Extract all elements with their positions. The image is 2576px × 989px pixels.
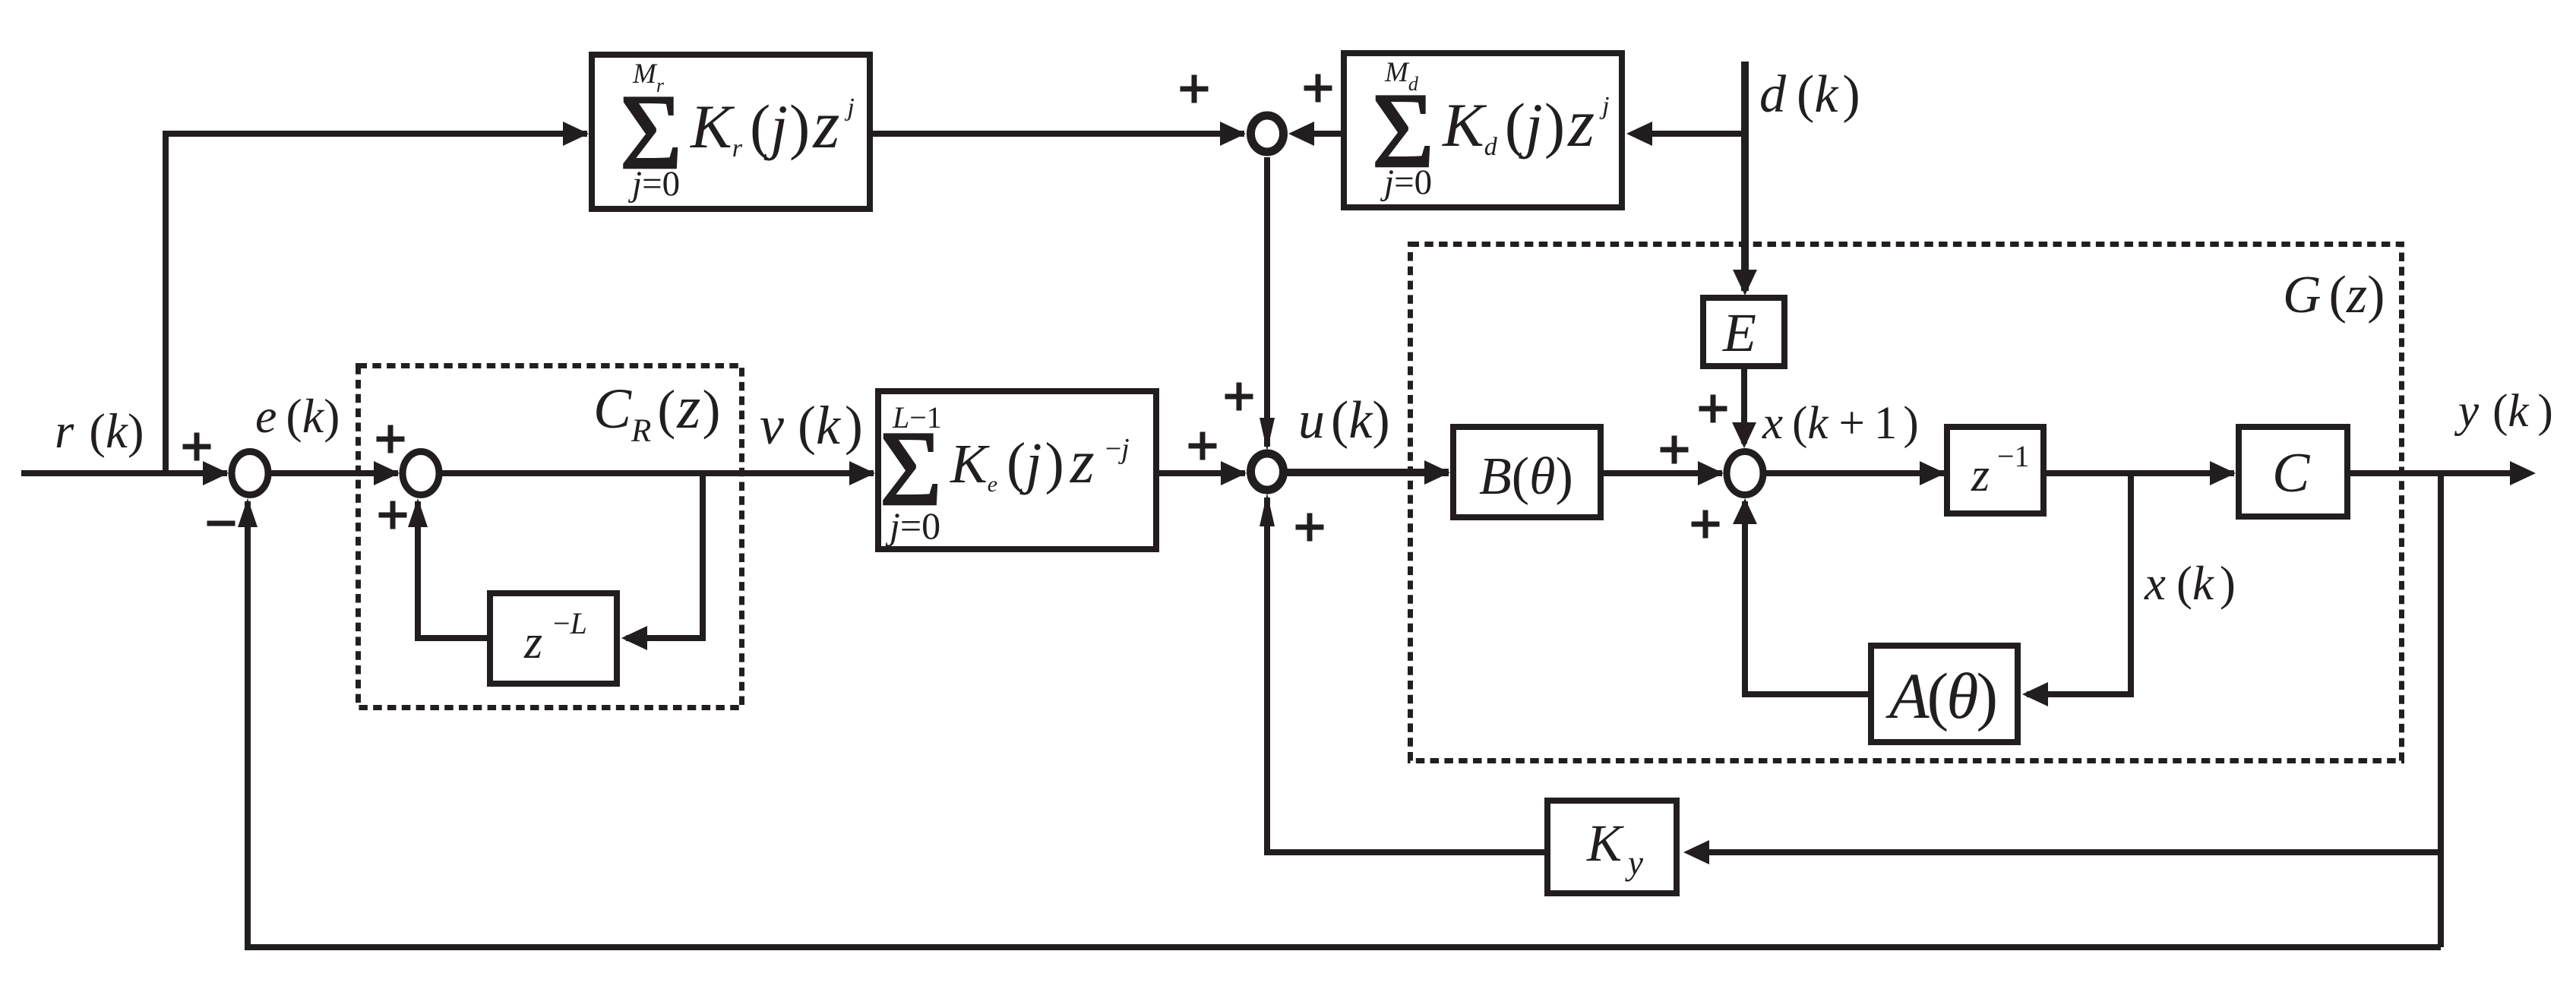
label C (2272, 442, 2311, 504)
block z^-1 (1947, 427, 2043, 513)
svg-text:Kr(j)zj: Kr(j)zj (690, 87, 855, 163)
label x(k+1) (1762, 398, 1919, 449)
wire x(k) tap to A block (2022, 473, 2131, 706)
svg-text:j=0: j=0 (1380, 163, 1432, 202)
label B(theta) (1479, 447, 1573, 506)
wire r branch to top rail (166, 122, 589, 473)
plus sign S4 left input (1661, 436, 1689, 464)
formula upper limit K_e (892, 400, 942, 434)
wire E to S4 (1732, 369, 1756, 448)
svg-text:r(k): r(k) (55, 404, 144, 459)
wire outer feedback y to S1 (238, 498, 2441, 947)
formula upper limit K_d (1384, 57, 1419, 95)
wire S2 to K_e block (442, 461, 875, 485)
wire C to y(k) output (2350, 461, 2536, 485)
block K_e sum (878, 391, 1156, 549)
plus sign S2 left input (377, 425, 405, 453)
wire K_d to S0 (1288, 122, 1341, 146)
plus sign S2 bottom input (379, 501, 407, 529)
label A(theta) (1885, 659, 1996, 732)
summing junction S3 u(k) (1251, 453, 1284, 490)
svg-text:e(k): e(k) (255, 389, 340, 443)
formula lower limit j=0 K_r (627, 164, 680, 204)
svg-text:Kd(j)zj: Kd(j)zj (1442, 86, 1610, 161)
wire d(k) vertical (1733, 62, 1757, 295)
formula K_e gain terms (950, 427, 1130, 497)
plus sign S4 top input (1699, 395, 1727, 423)
wire K_y to S3 (1260, 493, 1544, 852)
wire S0 to S3 (1260, 157, 1275, 451)
dashed box C_R(z) (359, 366, 742, 708)
svg-text:j=0: j=0 (885, 504, 940, 547)
svg-text:d(k): d(k) (1759, 65, 1860, 124)
svg-text:−L: −L (553, 606, 587, 640)
formula K_r gain terms (690, 87, 855, 163)
label d(k) (1759, 65, 1860, 124)
wire A to S4 (1733, 498, 1868, 694)
block z^-L (490, 593, 617, 684)
formula K_d gain terms (1442, 86, 1610, 161)
wire z^-L to S2 (408, 498, 487, 638)
block B(theta) (1453, 427, 1601, 517)
formula sigma K_d (1372, 71, 1434, 190)
label E (1722, 302, 1756, 363)
svg-text:u(k): u(k) (1298, 391, 1390, 450)
wire B to S4 (1604, 461, 1724, 485)
formula lower limit j=0 K_d (1380, 163, 1432, 202)
svg-text:CR(z): CR(z) (593, 374, 720, 449)
svg-text:z: z (523, 617, 542, 668)
plus sign S1 left input (183, 433, 211, 461)
summing junction S4 x(k+1) (1727, 452, 1763, 495)
minus sign S1 bottom input (207, 521, 235, 526)
label x(k) (2144, 557, 2236, 610)
plus sign S0 left input (1181, 75, 1209, 103)
dashed box G(z) (1411, 245, 2402, 761)
block K_r sum (592, 55, 870, 209)
wire d(k) to K_d (1626, 122, 1744, 146)
svg-text:z: z (1971, 450, 1990, 501)
svg-text:C: C (2272, 442, 2311, 504)
block K_d sum (1344, 53, 1622, 207)
svg-text:Ky: Ky (1586, 814, 1643, 882)
wire K_r to S0 (873, 122, 1246, 146)
summing junction S1 (232, 452, 268, 495)
label C_R(z) (593, 374, 720, 449)
label z^-L (523, 606, 587, 668)
wire y to K_y block (1683, 840, 2441, 864)
block A(theta) (1871, 646, 2018, 742)
formula sigma K_e (880, 409, 942, 528)
wire S1 to S2 (271, 461, 400, 485)
svg-text:G(z): G(z) (2283, 266, 2385, 324)
label G(z) (2283, 266, 2385, 324)
svg-text:j=0: j=0 (627, 164, 680, 204)
wire S4 to z^-1 block (1766, 461, 1945, 485)
svg-text:y(k): y(k) (2454, 386, 2553, 437)
svg-text:L−1: L−1 (892, 400, 942, 434)
block K_y (1547, 801, 1677, 893)
svg-text:B(θ): B(θ) (1479, 447, 1573, 506)
plus sign S4 bottom input (1692, 510, 1720, 539)
svg-text:Ke(j)z−j: Ke(j)z−j (950, 427, 1130, 497)
formula sigma K_r (620, 73, 682, 191)
block C (2239, 427, 2347, 517)
plus sign S3 bottom input (1296, 513, 1324, 542)
plus sign S3 top input (1225, 383, 1253, 411)
svg-text:x(k): x(k) (2144, 557, 2236, 610)
label e(k) (255, 389, 340, 443)
plus sign S3 left input (1189, 432, 1217, 460)
summing junction S0 (1251, 115, 1284, 152)
wire y(k) tap down (2438, 473, 2444, 947)
wire z^-1 to C block (2047, 461, 2236, 485)
block E (1703, 298, 1784, 366)
wire K_e to S3 (1159, 461, 1247, 485)
formula upper limit K_r (632, 58, 665, 96)
svg-text:E: E (1722, 302, 1756, 363)
label u(k) (1298, 391, 1390, 450)
label r(k) (55, 404, 144, 459)
svg-text:v(k): v(k) (760, 395, 863, 456)
wire S3 to B block (1285, 460, 1450, 485)
formula lower limit j=0 K_e (885, 504, 940, 547)
wire r(k) input (21, 461, 229, 485)
wire v(k) tap to z^-L block (621, 473, 703, 650)
summing junction S2 (403, 452, 439, 495)
plus sign S0 right input (1304, 74, 1332, 103)
label K_y (1586, 814, 1643, 882)
svg-text:x(k+1): x(k+1) (1762, 398, 1919, 449)
svg-text:A(θ): A(θ) (1885, 659, 1996, 732)
svg-text:−1: −1 (1997, 439, 2030, 473)
label z^-1 (1971, 439, 2030, 501)
label y(k) (2454, 386, 2553, 437)
label v(k) (760, 395, 863, 456)
